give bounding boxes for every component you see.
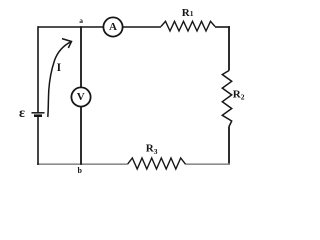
svg-text:V: V <box>77 91 85 103</box>
svg-text:ε: ε <box>19 106 25 121</box>
wire top-left segment (corner a to node a to ammeter) <box>38 26 103 28</box>
resistor R1 <box>161 21 215 31</box>
battery short plate <box>34 114 42 117</box>
wire ammeter to R1 <box>123 26 161 28</box>
svg-text:I: I <box>57 62 62 74</box>
wire middle branch upper (node a to voltmeter) <box>80 26 82 87</box>
wire R1 to top-right corner <box>215 26 230 28</box>
resistor R2 <box>222 71 231 127</box>
svg-text:R1: R1 <box>182 7 194 19</box>
voltmeter V <box>71 87 90 106</box>
bottom wire right segment (corner to R3), gray <box>186 163 230 165</box>
wire right side upper (corner to R2) <box>228 26 230 70</box>
svg-text:A: A <box>109 21 117 33</box>
svg-text:b: b <box>78 166 83 175</box>
ammeter A <box>103 17 122 36</box>
wire left side lower (battery to corner) <box>37 117 39 166</box>
wire middle branch lower (voltmeter to node b) <box>80 107 82 165</box>
svg-text:R3: R3 <box>146 143 158 156</box>
wire left side upper (corner to battery) <box>37 26 39 112</box>
wire right side lower (R2 to bottom-right corner) <box>228 127 230 166</box>
resistor R3 <box>128 158 186 169</box>
svg-text:a: a <box>79 16 83 25</box>
bottom wire left segment (R3 past node b to corner), gray <box>37 163 127 165</box>
svg-text:R2: R2 <box>233 88 245 101</box>
battery long plate <box>32 112 45 114</box>
current arrow (curved) <box>48 42 71 117</box>
